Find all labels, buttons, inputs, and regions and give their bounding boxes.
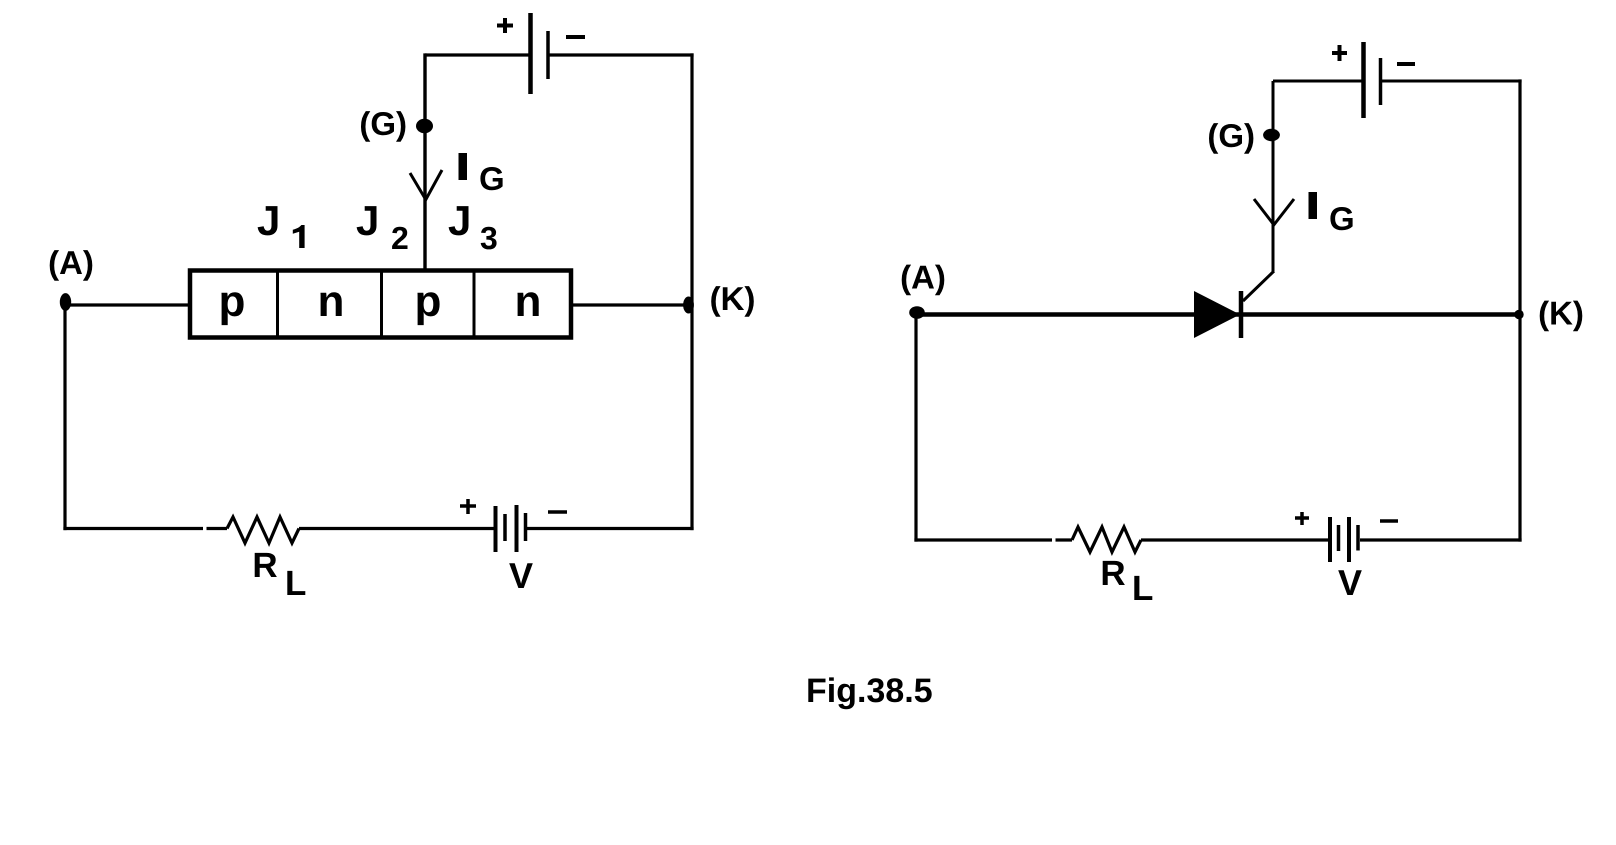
- wire: top segment from B1 to right rail (left circuit): [549, 53, 694, 56]
- wire: bottom rail from V to right rail (left circuit): [527, 527, 694, 530]
- battery B2 (gate supply, right) positive long plate: [1361, 42, 1366, 118]
- label: I_G gate current (right): [1309, 192, 1353, 230]
- battery B2 negative short plate: [1379, 58, 1383, 105]
- wire: left vertical rail (right circuit): [914, 313, 917, 542]
- wire: bottom rail short segment after scan break: [207, 527, 228, 530]
- battery V (left) plate 3 long: [515, 505, 519, 552]
- label: layer p (gate): [418, 292, 440, 325]
- label: R_L load resistor (right): [1103, 561, 1153, 600]
- resistor RL (right) zigzag: [1072, 527, 1141, 552]
- resistor RL (left) zigzag: [227, 517, 299, 543]
- label: layer n (first): [321, 292, 342, 316]
- label: (K) cathode terminal (right): [1540, 301, 1583, 332]
- wire: bottom rail left part (left circuit): [63, 527, 203, 530]
- label: I_G gate current (left): [459, 153, 503, 190]
- label: B1 plus sign: [497, 18, 513, 33]
- wire: main anode-cathode wire (right): [917, 312, 1519, 317]
- wire: bottom rail short segment after scan break (right circuit): [1056, 538, 1073, 541]
- battery V (left) plate 2 short: [503, 514, 507, 541]
- label: (G) left: [361, 111, 405, 142]
- wire: right vertical rail (left circuit): [690, 53, 693, 530]
- layer divider at junction J1: [276, 271, 279, 338]
- node (A) terminal dot (left): [60, 293, 71, 311]
- node (A) terminal dot (right): [909, 306, 925, 319]
- wire: gate vertical (left circuit): [423, 53, 426, 270]
- label: V battery (right): [1338, 570, 1362, 595]
- wire: right vertical rail (right circuit): [1518, 79, 1521, 541]
- label: B2 minus sign: [1397, 62, 1415, 66]
- label: junction J3: [449, 206, 497, 249]
- node (G) junction dot (left): [416, 119, 433, 133]
- layer divider at junction J3: [473, 271, 476, 338]
- gate current arrowhead on left gate wire: [410, 170, 442, 201]
- wire: cathode lead from body to (K): [571, 303, 688, 306]
- label: junction J1: [258, 206, 305, 248]
- label: R_L load resistor (left): [255, 553, 306, 595]
- wire: bottom rail between RL and battery V (right): [1141, 538, 1329, 541]
- label: V minus sign (left): [548, 510, 567, 514]
- SCR four-layer body outline box: [190, 271, 571, 338]
- wire: bottom rail left part (right circuit): [914, 538, 1052, 541]
- label: B2 plus sign: [1332, 45, 1347, 61]
- wire: left vertical rail (left circuit): [63, 303, 66, 530]
- layer divider at junction J2: [380, 271, 383, 338]
- battery V (right) plate 2 short: [1337, 525, 1341, 551]
- label: (A) anode terminal (left): [50, 250, 93, 281]
- node (K) terminal dot (right): [1514, 310, 1523, 319]
- label: (G) gate terminal (right): [1209, 123, 1253, 154]
- label: layer p (anode side): [222, 292, 244, 325]
- battery V (right) plate 4 short: [1356, 525, 1360, 551]
- label: V plus sign (left): [460, 499, 476, 514]
- battery B1 negative short plate: [546, 31, 550, 79]
- battery V (left) plate 4 short: [524, 513, 528, 541]
- wire: top-left segment from gate branch to battery B1 positive plate: [425, 53, 529, 56]
- node (K) terminal dot (left): [683, 297, 694, 314]
- SCR U1 cathode bar: [1239, 291, 1244, 338]
- wire: top segment from gate rail to battery B2: [1273, 80, 1362, 83]
- label: (A) anode terminal (right): [902, 265, 945, 296]
- label: B1 minus sign: [566, 35, 585, 39]
- node (G) junction dot (right): [1263, 129, 1280, 141]
- label: (K) cathode terminal (left): [711, 286, 754, 317]
- battery V (left) plate 1 long: [494, 506, 498, 552]
- wire: gate vertical (right circuit): [1272, 81, 1275, 271]
- SCR U1 anode triangle: [1194, 291, 1240, 338]
- caption: Fig.38.5: [808, 677, 931, 709]
- battery B1 (gate supply, left) positive long plate: [528, 13, 533, 94]
- label: V minus sign (right): [1380, 519, 1398, 523]
- gate current arrowhead on right gate wire: [1254, 199, 1294, 226]
- label: junction J2: [357, 206, 408, 249]
- label: V battery (left): [509, 563, 533, 588]
- wire: top segment from B2 to right rail (right circuit): [1382, 80, 1522, 83]
- label: layer n (cathode side): [518, 292, 539, 316]
- SCR U1 gate diagonal lead: [1243, 271, 1274, 301]
- wire: bottom rail between RL and battery V (left): [299, 527, 494, 530]
- battery V (right) plate 1 long: [1328, 517, 1332, 562]
- battery V (right) plate 3 long: [1347, 517, 1351, 562]
- wire: anode lead from (A) to body: [66, 303, 190, 306]
- label: V plus sign (right): [1295, 512, 1309, 525]
- wire: bottom rail from V to right rail (right circuit): [1360, 538, 1522, 541]
